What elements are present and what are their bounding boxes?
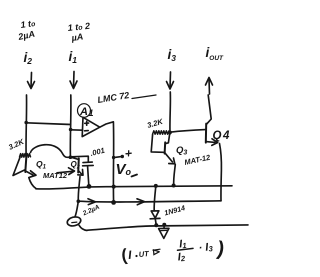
junction ground tap — [162, 223, 166, 227]
junction Q3 emitter — [172, 184, 176, 188]
svg-text:LMC 72: LMC 72 — [97, 90, 130, 105]
arrow i1 — [70, 72, 77, 89]
label 3.2k right — [146, 117, 164, 130]
fraction bar — [178, 248, 194, 250]
label MAT12 left — [43, 171, 68, 180]
label i1 — [69, 49, 78, 65]
resistor R1 squiggle — [20, 154, 31, 158]
svg-text:i3: i3 — [168, 47, 177, 63]
R2 left lead down to Q3 base — [151, 134, 163, 152]
wire i2 column — [25, 95, 28, 154]
node junction left — [24, 121, 28, 125]
label 2.2uA — [81, 204, 101, 218]
rail 2 (emitter bus) — [78, 201, 221, 202]
svg-text:i2: i2 — [24, 50, 33, 66]
wire to op-amp input — [26, 123, 70, 125]
arrowhead on rail2 (right) — [137, 199, 145, 205]
formula — [120, 238, 226, 265]
junction opamp out to rail2 — [111, 200, 116, 205]
Vo + tick — [112, 155, 124, 159]
capacitor C1 lower lead — [88, 167, 89, 186]
Q2 base bar — [77, 159, 80, 173]
bottom rail — [87, 225, 249, 230]
Q1 emitter arrow — [26, 171, 37, 177]
label Vo — [116, 161, 132, 178]
diode bottom lead — [154, 219, 157, 225]
junction diode bottom — [154, 223, 158, 227]
label i3 — [168, 47, 177, 63]
diode 1N914 top lead — [154, 186, 156, 211]
circle around A — [78, 104, 91, 118]
svg-text:i1: i1 — [69, 49, 78, 65]
junction right resistor — [168, 131, 172, 135]
underline after LMC72 — [132, 95, 156, 99]
label Q4 — [213, 130, 230, 142]
svg-text:2.2µA: 2.2µA — [81, 204, 101, 218]
capacitor C1 plates — [83, 162, 94, 166]
minus slash — [132, 175, 138, 177]
right block: i3 wire — [169, 92, 172, 132]
minus inside source — [72, 221, 77, 224]
label 1N914 — [163, 203, 186, 217]
svg-text:iOUT: iOUT — [206, 45, 225, 62]
label .001 — [89, 146, 105, 158]
arrow iOUT (up) — [206, 78, 213, 95]
Q3 collector lead — [165, 133, 169, 144]
svg-text:1N914: 1N914 — [163, 203, 186, 217]
svg-text:I: I — [128, 248, 133, 262]
arrowhead on rail2 (left) — [88, 199, 96, 205]
Q2 emitter wire down — [78, 177, 80, 201]
Q2 base arrow from MAT12 — [57, 168, 75, 175]
rail ground Vo line — [36, 186, 232, 189]
svg-text:2µA: 2µA — [16, 29, 35, 42]
Q2 label — [71, 160, 80, 171]
label iOUT — [206, 45, 225, 62]
svg-text:· I3: · I3 — [198, 241, 214, 254]
Q1 collector loop — [13, 157, 25, 175]
label Q3 — [176, 145, 187, 157]
svg-text:UT: UT — [138, 249, 150, 259]
svg-text:MAT-12: MAT-12 — [184, 153, 212, 167]
Q1 emitter tail to rail — [29, 178, 36, 189]
junction diode tap — [154, 184, 158, 188]
Q3 emitter arrow — [165, 153, 175, 164]
svg-text:): ) — [216, 238, 226, 261]
label MAT-12 right — [184, 153, 212, 167]
svg-text:3.2K: 3.2K — [146, 117, 164, 130]
label i2 — [24, 50, 33, 66]
diode cathode bar — [150, 217, 160, 219]
wire junction to op-amp — [71, 129, 83, 131]
current source wire down-left — [75, 202, 78, 217]
wire i1 column — [69, 95, 72, 157]
Q3 emitter wire down — [174, 165, 176, 186]
svg-text:I2: I2 — [177, 251, 186, 264]
Q4 emitter arrow — [206, 139, 218, 146]
resistor 3.2k left label — [7, 137, 26, 152]
arch wire Q1 to Q2 node — [31, 145, 70, 158]
svg-text:3.2K: 3.2K — [7, 137, 26, 152]
label 1 to 2uA (second) — [67, 21, 90, 43]
op-amp U1 triangle — [82, 117, 100, 136]
svg-text:µA: µA — [70, 31, 84, 43]
Q2 collector lead — [71, 157, 79, 159]
arrow i2 — [28, 73, 35, 89]
junction opamp out crossing — [112, 185, 116, 189]
op-amp label A1 — [79, 106, 94, 118]
wire junction to Q4 base — [170, 130, 205, 133]
Q4 emitter wire down — [220, 144, 222, 201]
Q4 base bar — [205, 124, 207, 143]
Q4 collector lead — [206, 95, 211, 125]
junction cap to rail — [87, 184, 92, 189]
svg-text:⊳: ⊳ — [152, 247, 161, 259]
node Q2 collector — [69, 155, 73, 159]
svg-text:1 to: 1 to — [20, 18, 37, 30]
label LMC72 — [97, 90, 130, 105]
label 1 to 2uA (left) — [16, 18, 36, 42]
resistor R2 squiggle — [153, 131, 171, 134]
svg-text:.001: .001 — [89, 146, 105, 158]
junction rail2 left — [77, 199, 81, 203]
source to bottom rail — [79, 225, 87, 230]
Q2 emitter arrow — [78, 170, 83, 176]
ground symbol — [159, 225, 169, 238]
diode triangle — [151, 211, 159, 218]
op-amp output wire down — [100, 122, 114, 203]
label Q1 — [36, 159, 47, 171]
svg-text:Q1: Q1 — [36, 159, 47, 171]
svg-text:Vo: Vo — [116, 161, 132, 178]
capacitor C1 wire from node — [71, 156, 89, 162]
svg-text:Q3: Q3 — [176, 145, 187, 157]
arrow i3 — [167, 72, 174, 89]
current source ellipse — [66, 216, 81, 228]
Q3 base bar — [164, 142, 167, 153]
plus sign — [126, 151, 131, 156]
node junction on i1 column — [69, 128, 73, 132]
Q1 base bar — [25, 158, 26, 173]
